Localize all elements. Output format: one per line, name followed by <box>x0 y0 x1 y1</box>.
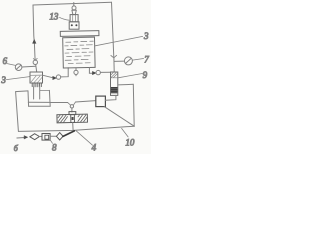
wire valve to column 9 <box>100 71 110 73</box>
leader label 3 left <box>6 77 29 80</box>
wire burner 5 to valve <box>43 75 53 78</box>
mixer 4 top tab <box>69 112 76 115</box>
leader label 9 <box>118 74 142 78</box>
wire gauge 6 to riser <box>22 65 36 68</box>
arrow up on left riser <box>33 40 36 44</box>
column 9 dark packing <box>111 87 118 93</box>
wire right vertical drop <box>112 2 114 57</box>
tank liquid dashes <box>65 41 94 63</box>
valve cock circle left <box>56 75 60 79</box>
gauge 7 tap wire <box>114 60 124 62</box>
mixer inlet ball <box>70 105 73 108</box>
leader label 8 <box>50 140 53 144</box>
burner 5 nozzle comb <box>32 83 41 87</box>
wire top horizontal <box>33 2 112 5</box>
pipe box 10 to column 9 <box>105 95 116 100</box>
meter 8 box <box>42 134 50 141</box>
bath vessel <box>27 91 30 106</box>
igniter upper body <box>70 15 78 22</box>
svg-text:9: 9 <box>143 70 148 80</box>
svg-text:13: 13 <box>49 12 59 22</box>
valve arrow left <box>53 76 57 79</box>
regulator 10 box <box>96 96 106 107</box>
wire to meter 8 <box>39 135 42 137</box>
burner 5 hatch <box>31 76 42 83</box>
tank drain cock circle <box>74 70 78 74</box>
burner 5 legs <box>33 87 35 99</box>
svg-text:4: 4 <box>92 142 97 152</box>
filter diamond 1 <box>30 134 40 140</box>
burner 5 inner line <box>30 74 43 76</box>
gauge 7 needle <box>126 59 131 64</box>
wire valve to tank left stub <box>61 68 68 77</box>
svg-text:7: 7 <box>144 54 149 64</box>
mixer 4 body <box>57 114 88 123</box>
svg-text:8: 8 <box>52 142 57 152</box>
arrow down into junction <box>33 58 37 60</box>
node junction circle left <box>33 60 37 64</box>
pipe mixer to box 10 <box>76 101 96 102</box>
tank 3 body <box>63 37 95 68</box>
igniter ball <box>72 6 76 10</box>
svg-text:б: б <box>14 144 19 153</box>
wire left vertical riser <box>33 5 35 60</box>
gauge 6 needle <box>16 65 21 69</box>
wire column 9 right to down corner <box>118 84 134 126</box>
mixer 4 left hatch <box>58 115 68 122</box>
leader label 6 <box>7 64 15 66</box>
meter 8 inner <box>45 135 49 139</box>
burner unit 5 box <box>30 72 43 83</box>
gauge 7 circle <box>124 57 132 65</box>
valve arrow right <box>93 71 97 74</box>
leader label 4 <box>76 131 92 145</box>
wire to diamond 2 <box>50 135 56 137</box>
svg-text:3: 3 <box>143 31 149 41</box>
mixer inlet dip <box>68 103 71 106</box>
igniter funnel <box>72 10 76 14</box>
wire gauge 7 to label <box>133 59 144 61</box>
svg-text:10: 10 <box>125 137 134 147</box>
wire diamond 2 up to mixer stem <box>63 131 74 137</box>
wire junction to burner valve box 5 <box>36 65 37 72</box>
leader label 13 <box>60 17 71 20</box>
arrow down chevron <box>111 55 117 58</box>
valve cock circle right <box>96 70 100 74</box>
tank 3 lid <box>60 31 99 37</box>
inlet pipe b <box>17 137 25 140</box>
column 9 body <box>111 72 118 95</box>
mixer 4 centre column <box>71 115 75 123</box>
pipe bath to mixer 4 <box>50 102 67 104</box>
gauge 6 circle <box>15 64 22 71</box>
drain diagonal <box>104 107 134 127</box>
wire chevron to column 9 <box>113 58 115 72</box>
mixer 4 bottom stem <box>72 123 74 131</box>
tank right stub <box>89 68 92 74</box>
svg-text:3: 3 <box>0 75 6 85</box>
tank drain stem <box>75 68 77 71</box>
wire bath left wall <box>16 91 28 131</box>
igniter lower body <box>69 22 79 29</box>
inlet arrow <box>24 136 28 139</box>
filter diamond 2 <box>56 133 63 140</box>
leader label 3 to tank <box>95 36 142 45</box>
burner igniter 13 stem <box>73 3 75 7</box>
column 9 top hatch <box>111 72 118 77</box>
svg-text:6: 6 <box>3 56 8 66</box>
mixer stem up <box>71 108 73 112</box>
wire bottom long <box>18 126 134 131</box>
leader label 10 <box>122 128 129 137</box>
mixer 4 right hatch <box>78 115 87 122</box>
